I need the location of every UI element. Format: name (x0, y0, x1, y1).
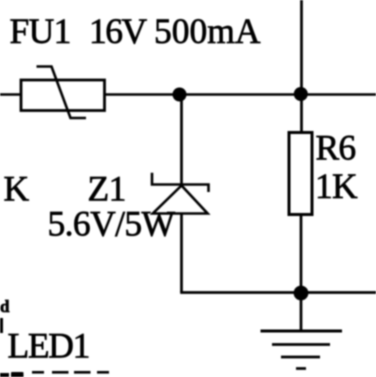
ground bar 3 (281, 356, 320, 359)
node junction dot bottom (294, 286, 309, 301)
svg-text:LED1: LED1 (8, 326, 90, 366)
node junction dot right top (294, 87, 308, 101)
svg-text:K: K (4, 169, 30, 209)
ground stem (300, 293, 303, 330)
wire main horizontal right of fuse (104, 93, 376, 96)
svg-text:R6: R6 (316, 128, 356, 168)
fuse FU1 diagonal stroke (37, 67, 87, 119)
wire bottom horizontal (180, 291, 376, 294)
wire vertical R6 bottom to junction (300, 214, 303, 293)
ground bar 4 (296, 367, 306, 370)
wire vertical right from top to R6 (300, 0, 303, 133)
ground bar 1 (261, 330, 343, 333)
svg-text:FU1: FU1 (10, 11, 71, 51)
zener Z1 cathode bar (152, 173, 209, 192)
wire vertical zener from junction (180, 94, 183, 186)
svg-text:d: d (0, 297, 10, 316)
svg-text:16V: 16V (89, 11, 148, 51)
label FU1 16V 500mA (10, 11, 261, 51)
clipped glyph sliver at left edge (0, 318, 3, 333)
node junction dot left (173, 88, 187, 102)
svg-text:5.6V/5W: 5.6V/5W (48, 204, 176, 244)
wire vertical below zener (180, 214, 183, 293)
svg-text:500mA: 500mA (154, 11, 261, 51)
clipped text top at bottom edge (0, 373, 9, 377)
zener Z1 triangle (153, 186, 208, 214)
fuse FU1 body (21, 80, 105, 111)
svg-text:Z1: Z1 (88, 169, 126, 209)
wire main horizontal left segment (0, 93, 21, 96)
ground bar 2 (272, 343, 330, 346)
dash marks bottom row (32, 371, 44, 374)
svg-text:1K: 1K (315, 166, 358, 206)
resistor R6 body (289, 133, 312, 215)
